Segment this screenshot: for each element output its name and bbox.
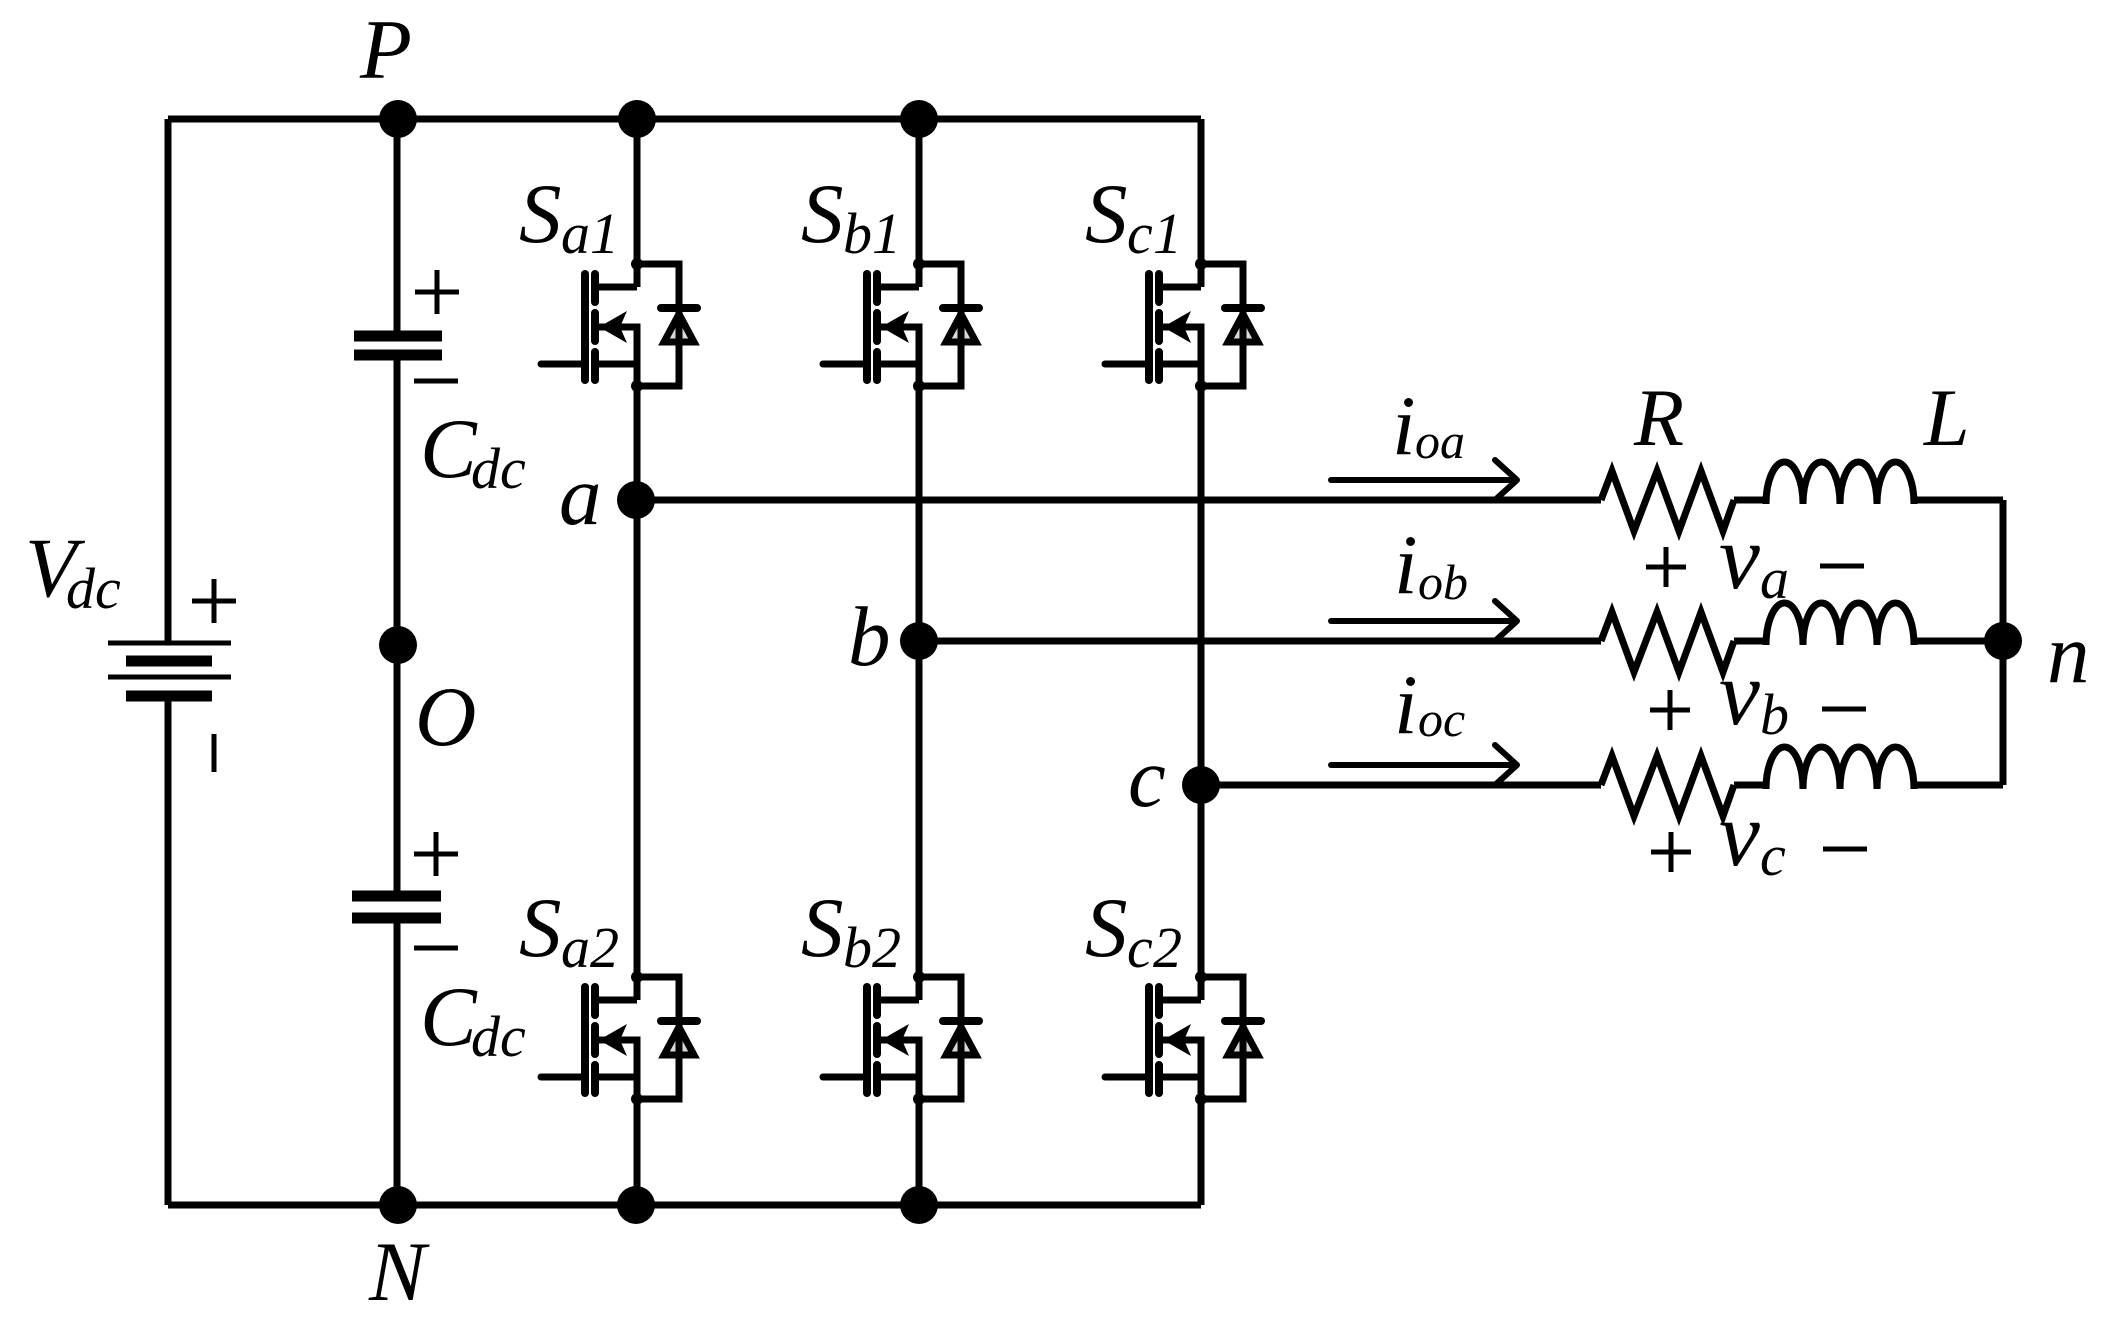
svg-text:c: c (1128, 731, 1166, 825)
svg-text:1: 1 (1153, 201, 1182, 266)
wire resistor to inductor phase c (1734, 782, 1766, 789)
svg-text:S: S (801, 881, 844, 975)
battery plus sign (192, 579, 236, 623)
svg-text:2: 2 (590, 915, 619, 980)
node P (379, 100, 417, 138)
wire leg c lower (1198, 1040, 1205, 1205)
current arrow iob (1331, 601, 1517, 641)
label Vdc (25, 521, 121, 621)
current arrow ioc (1331, 745, 1517, 785)
svg-text:2: 2 (1153, 915, 1182, 980)
transistor Sb2 (823, 971, 979, 1105)
svg-text:O: O (415, 670, 476, 764)
svg-text:b: b (843, 201, 872, 266)
wire leg b upper (916, 119, 923, 287)
svg-text:c: c (1127, 201, 1153, 266)
label Cdc lower (420, 970, 526, 1069)
resistor R phase b (1601, 612, 1734, 672)
svg-text:a: a (559, 449, 602, 543)
junction dot top rail leg a (618, 100, 656, 138)
inductor L phase b (1766, 603, 1914, 645)
svg-text:b: b (848, 590, 891, 684)
svg-text:dc: dc (471, 436, 526, 501)
label Cdc upper (420, 402, 526, 501)
wire top rail P (168, 116, 1201, 123)
svg-text:a: a (561, 915, 590, 980)
svg-text:L: L (1923, 372, 1970, 463)
node a (617, 481, 655, 519)
node O (379, 626, 417, 664)
current arrow ioa (1331, 460, 1517, 500)
transistor Sa1 (541, 258, 697, 392)
wire phase a to resistor (636, 497, 1601, 504)
wire resistor to inductor phase a (1734, 497, 1766, 504)
label +vb- minus (1822, 707, 1866, 712)
junction dot bottom rail leg b (900, 1186, 938, 1224)
label va (1719, 506, 1789, 611)
svg-text:oc: oc (1418, 691, 1465, 747)
upper capacitor minus sign (414, 379, 458, 384)
svg-text:P: P (359, 3, 412, 97)
svg-text:oa: oa (1415, 413, 1465, 469)
wire left branch vertical (top) (165, 119, 172, 643)
label ioc (1394, 658, 1465, 752)
wire inductor to corner phase c (1914, 782, 2003, 789)
lower capacitor plus sign (414, 832, 458, 876)
label +va- minus (1820, 564, 1864, 569)
wire leg c middle (1198, 327, 1205, 1000)
svg-text:b: b (843, 915, 872, 980)
svg-text:C: C (420, 402, 478, 496)
svg-text:c: c (1127, 915, 1153, 980)
svg-text:v: v (1719, 642, 1760, 744)
lower capacitor minus sign (414, 946, 458, 951)
node b (900, 622, 938, 660)
wire phase b to resistor (919, 638, 1601, 645)
svg-text:N: N (368, 1225, 430, 1319)
label +vc- minus (1823, 847, 1867, 852)
wire capacitor branch (lower cap to rail) (394, 918, 401, 1205)
label Sc1 (1085, 167, 1182, 266)
wire inductor to node n phase b (1914, 638, 2003, 645)
label Sb1 (801, 167, 901, 266)
svg-text:C: C (420, 970, 478, 1064)
label Sb2 (801, 881, 901, 980)
wire leg c upper (1198, 119, 1205, 287)
label iob (1394, 518, 1468, 612)
resistor R phase a (1601, 471, 1734, 531)
label +vc- plus (1651, 832, 1691, 872)
upper capacitor plus sign (415, 270, 459, 314)
svg-text:S: S (1085, 167, 1128, 261)
battery minus sign (212, 734, 217, 772)
transistor Sc1 (1105, 258, 1261, 392)
wire leg b lower (916, 1040, 923, 1205)
transistor Sa2 (541, 971, 697, 1105)
svg-text:2: 2 (872, 915, 901, 980)
wire bottom rail N (168, 1202, 1201, 1209)
svg-text:b: b (1760, 682, 1789, 747)
label vc (1719, 783, 1786, 888)
label +vb- plus (1650, 690, 1690, 730)
node N (379, 1186, 417, 1224)
svg-text:R: R (1633, 372, 1684, 463)
svg-text:ob: ob (1418, 554, 1468, 610)
svg-text:c: c (1760, 823, 1786, 888)
svg-text:S: S (1085, 881, 1128, 975)
wire left branch vertical (bottom) (165, 696, 172, 1205)
inductor L phase a (1766, 462, 1914, 504)
label +va- plus (1646, 547, 1686, 587)
wire leg b middle (916, 327, 923, 1000)
battery Vdc (108, 643, 231, 696)
svg-text:a: a (561, 201, 590, 266)
svg-text:S: S (519, 881, 562, 975)
capacitor Cdc lower (352, 896, 441, 918)
capacitor Cdc upper (354, 336, 442, 355)
svg-text:v: v (1719, 783, 1760, 885)
wire load right vertical (2000, 500, 2007, 785)
node n (1984, 622, 2022, 660)
wire leg a lower (634, 1040, 641, 1205)
svg-text:v: v (1719, 506, 1760, 608)
junction dot top rail leg b (900, 100, 938, 138)
label ioa (1392, 379, 1465, 473)
transistor Sb1 (823, 258, 979, 392)
wire leg a upper (634, 119, 641, 287)
svg-text:dc: dc (471, 1004, 526, 1069)
inductor L phase c (1766, 747, 1914, 789)
svg-text:i: i (1394, 658, 1418, 752)
resistor R phase c (1601, 756, 1734, 816)
svg-text:S: S (519, 167, 562, 261)
label Sa1 (519, 167, 619, 266)
svg-text:i: i (1392, 379, 1416, 473)
wire phase c to resistor (1201, 782, 1601, 789)
label Sc2 (1085, 881, 1182, 980)
svg-text:dc: dc (66, 556, 121, 621)
wire resistor to inductor phase b (1734, 638, 1766, 645)
svg-text:1: 1 (872, 201, 901, 266)
svg-text:i: i (1394, 518, 1418, 612)
label Sa2 (519, 881, 619, 980)
transistor Sc2 (1105, 971, 1261, 1105)
wire capacitor branch (upper cap to lower cap through O) (394, 355, 401, 896)
wire leg a middle (634, 327, 641, 1000)
wire capacitor branch (rail to upper cap) (394, 119, 401, 336)
label vb (1719, 642, 1789, 747)
svg-text:S: S (801, 167, 844, 261)
junction dot bottom rail leg a (617, 1186, 655, 1224)
node c (1182, 766, 1220, 804)
svg-text:n: n (2047, 607, 2090, 701)
wire inductor to corner phase a (1914, 497, 2003, 504)
svg-text:1: 1 (590, 201, 619, 266)
